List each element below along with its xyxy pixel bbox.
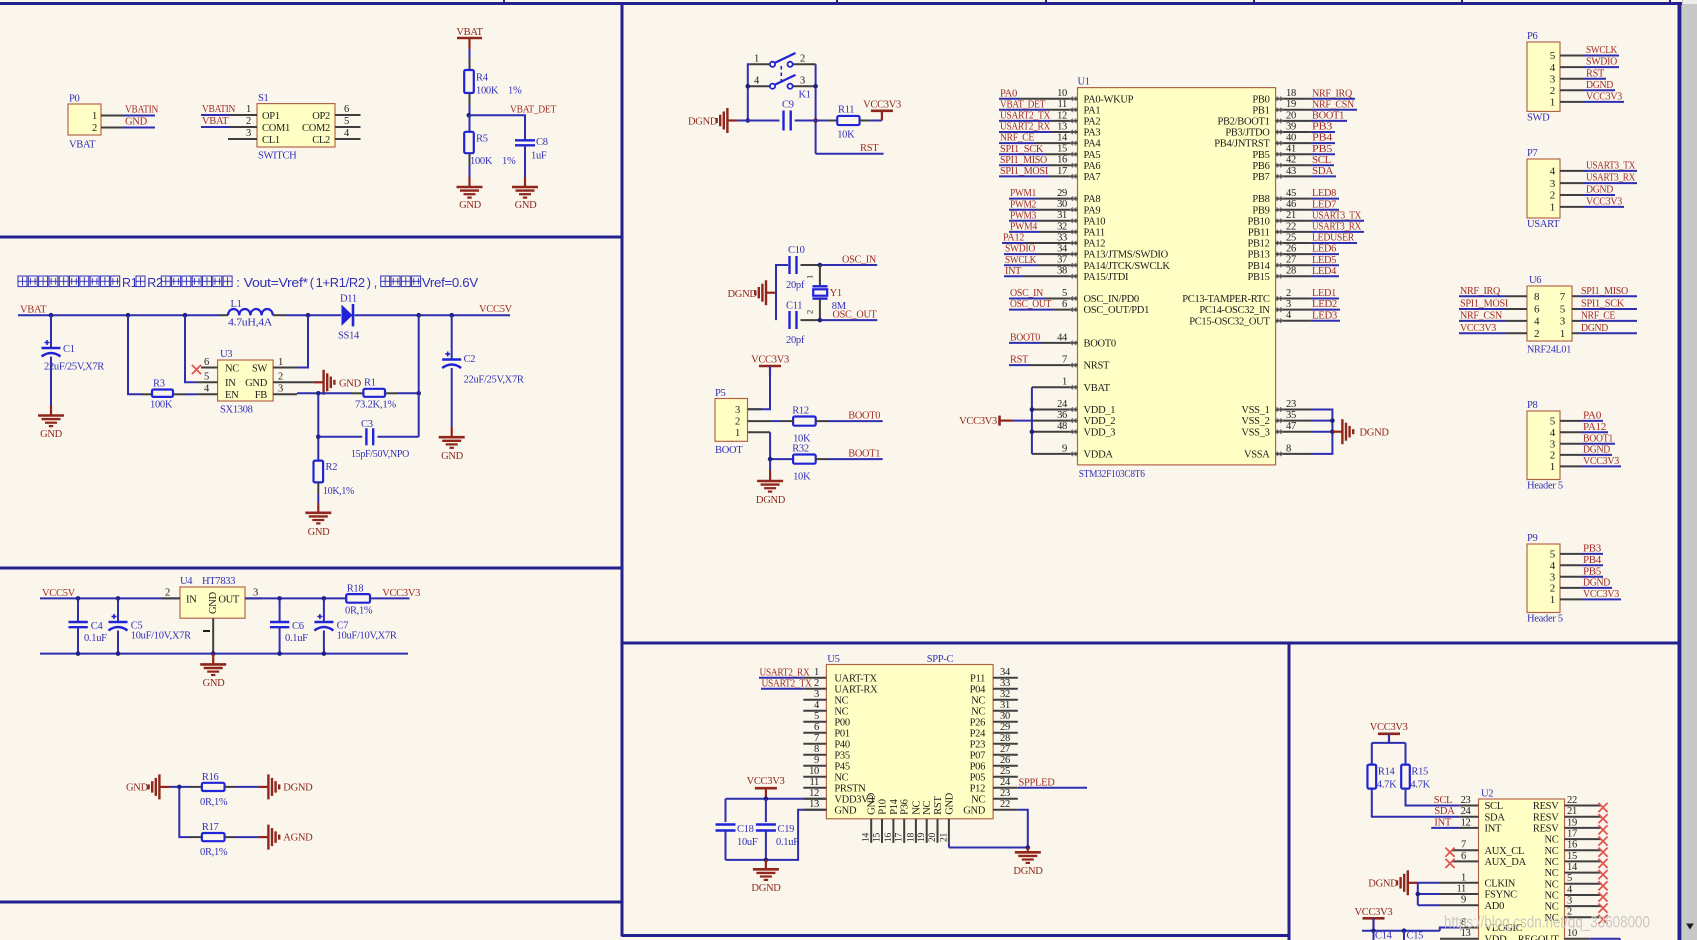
svg-text:35: 35: [1286, 410, 1296, 421]
svg-text:4: 4: [1550, 560, 1556, 572]
svg-text:DGND: DGND: [283, 783, 313, 794]
pin U2.10 REGOUT: [1565, 928, 1590, 939]
pin U1.19 PB1: [1252, 99, 1310, 116]
power VCC3V3: [863, 100, 901, 121]
svg-text:PC15-OSC32_OUT: PC15-OSC32_OUT: [1189, 316, 1270, 327]
svg-text:14: 14: [1057, 133, 1068, 144]
resistor R5: [464, 132, 516, 167]
wire ground rail: [40, 653, 408, 655]
power VCC3V3: [751, 355, 789, 376]
svg-text:20: 20: [1286, 110, 1296, 121]
svg-text:NRF_CSN: NRF_CSN: [1312, 99, 1355, 110]
pin U1.18 PB0: [1252, 88, 1310, 105]
wire: [317, 494, 319, 503]
svg-text:30: 30: [1000, 711, 1010, 722]
svg-text:INT: INT: [1005, 266, 1022, 277]
wire: [748, 366, 771, 409]
wire net BOOT0: [1009, 333, 1042, 344]
svg-text:4.7K: 4.7K: [1410, 780, 1430, 791]
wire: [179, 787, 190, 837]
svg-text:C14: C14: [1375, 931, 1393, 940]
pin R1.1: [352, 392, 363, 394]
pin U5.13: [803, 799, 826, 810]
svg-text:5: 5: [344, 116, 349, 127]
svg-text:13: 13: [1057, 121, 1067, 132]
pin U1.41 PB5: [1252, 144, 1310, 161]
IC U3 SX1308: [218, 349, 274, 416]
svg-text:C3: C3: [361, 419, 373, 430]
junction: [416, 313, 421, 318]
svg-text:DGND: DGND: [751, 883, 781, 894]
svg-text:21: 21: [939, 833, 949, 842]
svg-text:2: 2: [814, 678, 819, 689]
svg-text:VCC3V3: VCC3V3: [1354, 907, 1392, 918]
pin U5.11: [803, 777, 826, 788]
junction: [76, 596, 81, 601]
resistor R11: [837, 105, 859, 141]
svg-text:INT: INT: [1485, 824, 1502, 835]
svg-text:VCC3V3: VCC3V3: [863, 100, 901, 111]
svg-text:K1: K1: [799, 90, 811, 101]
svg-text:PA11: PA11: [1084, 228, 1105, 239]
pin U2.11 FSYNC: [1440, 884, 1479, 895]
svg-text:39: 39: [1286, 121, 1296, 132]
junction: [316, 435, 321, 440]
svg-text:PB4/JNTRST: PB4/JNTRST: [1214, 139, 1270, 150]
svg-text:7: 7: [814, 733, 819, 744]
svg-text:1: 1: [1062, 377, 1067, 388]
svg-text:IN: IN: [186, 595, 197, 606]
wire: [235, 836, 258, 838]
pin U3.3 FB: [273, 384, 297, 395]
svg-text:NC: NC: [1545, 879, 1559, 890]
pin U5.25: [993, 766, 1018, 777]
svg-text:FB: FB: [255, 390, 268, 401]
svg-text:1%: 1%: [508, 86, 522, 97]
svg-text:UART-TX: UART-TX: [834, 673, 877, 684]
svg-text:P23: P23: [970, 739, 985, 750]
pin U1.47 VSS_3: [1241, 421, 1311, 438]
svg-text:GND: GND: [944, 792, 955, 815]
svg-text:0.1uF: 0.1uF: [776, 837, 799, 848]
IC U4 HT7833: [180, 576, 245, 618]
wire net SDA: [1372, 789, 1460, 818]
svg-text:LED5: LED5: [1312, 255, 1336, 266]
wire net LED2: [1311, 299, 1340, 310]
ground GND bar symbol: [126, 774, 169, 799]
wire: [1013, 420, 1032, 422]
junction: [49, 313, 54, 318]
svg-text:PB1: PB1: [1252, 105, 1269, 116]
wire net VCC3V3: [1459, 323, 1505, 334]
wire net PA0: [1581, 411, 1603, 422]
wire net INT: [1004, 266, 1023, 277]
svg-text:SCL: SCL: [1312, 155, 1331, 166]
svg-text:15: 15: [1567, 851, 1577, 862]
svg-text:SWCLK: SWCLK: [1005, 255, 1037, 266]
svg-text:2: 2: [1550, 190, 1555, 202]
svg-text:D11: D11: [340, 294, 357, 305]
svg-text:5: 5: [1567, 873, 1572, 884]
wire: [770, 432, 793, 459]
svg-text:6: 6: [1461, 851, 1466, 862]
svg-text:GND: GND: [867, 792, 878, 815]
svg-text:U3: U3: [220, 349, 232, 360]
pin U1.21 PB10: [1247, 210, 1310, 227]
junction: [183, 313, 188, 318]
junction: [177, 785, 182, 790]
pin U1.45 PB8: [1252, 188, 1310, 205]
junction: [449, 313, 454, 318]
svg-text:4: 4: [814, 700, 820, 711]
svg-text:PA12: PA12: [1003, 233, 1024, 244]
svg-text:PB12: PB12: [1247, 239, 1269, 250]
wire net GND: [124, 117, 155, 128]
pin U1.6 OSC_OUT/PD1: [1053, 299, 1149, 316]
wire net SPI1_MISO: [999, 155, 1049, 166]
svg-text:19: 19: [1286, 99, 1296, 110]
svg-text:3: 3: [1550, 73, 1556, 85]
svg-text:LED7: LED7: [1312, 199, 1336, 210]
pin R5.2: [469, 153, 471, 165]
pin U5.7: [803, 733, 826, 744]
pin U5.24: [993, 777, 1018, 788]
connector P9: [1527, 533, 1563, 625]
wire net USART2_RX: [759, 667, 810, 678]
svg-text:NRF_IRQ: NRF_IRQ: [1312, 88, 1353, 99]
pin U1.7 NRST: [1030, 355, 1110, 372]
wire net USART3_RX: [1311, 222, 1364, 233]
pin P5.1: [748, 431, 771, 433]
svg-text:COM1: COM1: [262, 123, 290, 134]
svg-text:PB8: PB8: [1252, 194, 1269, 205]
svg-text:20pf: 20pf: [786, 335, 805, 346]
wire net PA0: [999, 88, 1019, 99]
capacitor C5: [109, 598, 192, 653]
svg-text:100K: 100K: [470, 156, 493, 167]
wire: [1372, 734, 1406, 765]
pin U2.2 NC: [1565, 907, 1602, 918]
svg-text:PA0: PA0: [1000, 88, 1017, 99]
sheet border left-column bottom y=902: [0, 901, 622, 904]
svg-text:47: 47: [1286, 421, 1296, 432]
connector P5: [715, 388, 748, 456]
ground DGND: [756, 470, 786, 506]
svg-text:NC: NC: [922, 801, 933, 815]
svg-text:PWM4: PWM4: [1010, 222, 1038, 233]
svg-text:VCC3V3: VCC3V3: [1586, 197, 1622, 208]
svg-text:4: 4: [1550, 62, 1556, 74]
svg-text:GND: GND: [245, 378, 268, 389]
svg-text:SW: SW: [252, 364, 268, 375]
pin U6 right 2: [1572, 320, 1580, 322]
resistor R1: [355, 378, 397, 411]
svg-text:10K: 10K: [793, 472, 811, 483]
svg-text:32: 32: [1057, 221, 1067, 232]
svg-text:PC14-OSC32_IN: PC14-OSC32_IN: [1199, 305, 1270, 316]
svg-text:NC: NC: [225, 364, 239, 375]
svg-text:PB6: PB6: [1252, 161, 1269, 172]
svg-text:3: 3: [246, 128, 251, 139]
no-connect X: [1598, 892, 1607, 901]
svg-text:10: 10: [809, 766, 819, 777]
svg-text:45: 45: [1286, 188, 1296, 199]
svg-text:NC: NC: [1545, 902, 1559, 913]
pin U5.6: [803, 722, 826, 733]
connector P6: [1527, 31, 1560, 123]
wire net SPI1_SCK: [1580, 299, 1637, 310]
svg-text:3: 3: [278, 384, 283, 395]
svg-text:PB3/JTDO: PB3/JTDO: [1225, 128, 1270, 139]
svg-text:VSS_1: VSS_1: [1241, 405, 1269, 416]
svg-text:0R,1%: 0R,1%: [200, 797, 228, 808]
resistor R18: [345, 584, 373, 617]
sheet border vertical x=1289: [1288, 643, 1291, 940]
svg-text:PA15/JTDI: PA15/JTDI: [1084, 272, 1130, 283]
svg-text:PA14/JTCK/SWCLK: PA14/JTCK/SWCLK: [1084, 261, 1171, 272]
wire net VBAT_DET: [999, 99, 1047, 110]
svg-text:4: 4: [1286, 310, 1292, 321]
wire: [469, 105, 471, 131]
svg-text:16: 16: [1057, 155, 1067, 166]
pin U1.2 PC13-TAMPER-RTC: [1182, 288, 1310, 305]
svg-text:1: 1: [1550, 202, 1555, 214]
wire: [815, 64, 817, 153]
svg-text:20: 20: [928, 833, 938, 842]
svg-text:PWM2: PWM2: [1010, 199, 1036, 210]
capacitor C2: [442, 315, 524, 427]
svg-text:34: 34: [1057, 244, 1068, 255]
svg-text:NRST: NRST: [1084, 361, 1111, 372]
svg-text:PA1: PA1: [1084, 105, 1101, 116]
svg-text:USART2_TX: USART2_TX: [1000, 111, 1051, 122]
svg-text:17: 17: [1057, 166, 1067, 177]
wire net NRF_CE: [1580, 311, 1637, 322]
no-connect X: [1598, 825, 1607, 834]
pin P6.3: [1560, 78, 1584, 80]
svg-text:19: 19: [917, 833, 927, 842]
svg-text:18: 18: [1286, 88, 1296, 99]
svg-text:GND: GND: [834, 805, 857, 816]
pin U5.8: [803, 744, 826, 755]
svg-text:BOOT1: BOOT1: [1312, 111, 1344, 122]
svg-text:5: 5: [204, 372, 209, 383]
wire net PWM2: [1009, 199, 1038, 210]
svg-text:4.7K: 4.7K: [1377, 780, 1397, 791]
svg-text:9: 9: [814, 755, 819, 766]
svg-text:AUX_CL: AUX_CL: [1485, 846, 1525, 857]
svg-text:C8: C8: [536, 137, 548, 148]
junction: [1371, 928, 1406, 933]
ground GND: [439, 427, 465, 462]
junction: [764, 797, 769, 802]
IC U5 SPP-C: [826, 654, 993, 819]
wire net SWDIO: [1584, 57, 1619, 68]
wire: [128, 315, 141, 394]
junction: [813, 84, 818, 123]
wire net NRF_CE: [999, 133, 1036, 144]
pin U5.12: [803, 788, 826, 799]
svg-text:SX1308: SX1308: [220, 405, 253, 416]
pin R12 wires net BOOT0: [780, 410, 882, 421]
sheet border middle divider y=643: [622, 642, 1680, 645]
svg-text:RST: RST: [1010, 355, 1029, 366]
svg-text:8: 8: [814, 744, 819, 755]
wire: [377, 436, 418, 438]
svg-text:GND: GND: [126, 783, 149, 794]
svg-text:https://blog.csdn.net/qq_33608: https://blog.csdn.net/qq_33608000: [1444, 913, 1650, 932]
svg-text:10K,1%: 10K,1%: [323, 486, 355, 497]
capacitor C7: [314, 598, 396, 653]
svg-text:U1: U1: [1078, 77, 1090, 88]
capacitor C14: [1374, 931, 1393, 940]
svg-text:37: 37: [1057, 255, 1067, 266]
pin U1.25 PB12: [1247, 232, 1310, 249]
svg-text:P0: P0: [69, 94, 80, 105]
pin U1.14 PA4: [1036, 133, 1101, 150]
pin U1.34 PA13/JTMS/SWDIO: [1037, 244, 1169, 261]
svg-text:NC: NC: [911, 801, 922, 815]
power VCC3V3: [1354, 907, 1392, 928]
resistor R15: [1401, 765, 1430, 791]
svg-text:28: 28: [1286, 266, 1296, 277]
svg-text:2: 2: [800, 54, 805, 65]
ground DGND bar symbol: [728, 280, 777, 305]
svg-text:AUX_DA: AUX_DA: [1485, 857, 1527, 868]
svg-text:5: 5: [1560, 304, 1566, 316]
svg-text:L1: L1: [231, 299, 242, 310]
pin R4.2: [469, 93, 471, 105]
junction: [467, 113, 472, 118]
svg-text:R2: R2: [326, 462, 338, 473]
pin R3.1: [141, 393, 152, 395]
svg-text:3: 3: [800, 76, 805, 87]
resistor R17: [200, 822, 228, 858]
pin P8.1: [1560, 465, 1581, 467]
svg-text:C11: C11: [786, 301, 802, 312]
svg-text:33: 33: [1000, 678, 1010, 689]
pin U2.1 CLKIN: [1440, 872, 1479, 883]
wire: [235, 786, 258, 788]
svg-text:P8: P8: [1527, 400, 1538, 411]
svg-text:PWM1: PWM1: [1010, 188, 1036, 199]
svg-text:48: 48: [1057, 421, 1067, 432]
sheet border middle bottom y=935.5: [622, 934, 1290, 937]
svg-text:VCC3V3: VCC3V3: [1460, 323, 1496, 334]
ground GND: [512, 177, 538, 211]
svg-text:2: 2: [278, 372, 283, 383]
pin R16.2: [225, 786, 235, 788]
pin U1.33 PA12: [1026, 232, 1105, 249]
wire net NRF_CSN: [1311, 99, 1357, 110]
svg-text:1: 1: [246, 104, 251, 115]
svg-text:PB15: PB15: [1247, 272, 1269, 283]
svg-text:P11: P11: [970, 673, 985, 684]
wire: [185, 393, 197, 395]
pin R11.2: [860, 120, 870, 122]
power VCC3V3: [1370, 722, 1408, 744]
svg-text:38: 38: [1057, 266, 1067, 277]
wire net NRF_CSN: [1459, 311, 1505, 322]
pin R3.2: [173, 393, 185, 395]
pin U3.6 NC: [201, 357, 218, 368]
svg-text:PB13: PB13: [1247, 250, 1269, 261]
svg-text:PA12: PA12: [1583, 422, 1606, 433]
wire net PB5: [1581, 566, 1603, 577]
svg-text:16: 16: [884, 833, 894, 842]
wire net DGND: [1584, 80, 1615, 91]
wire net RST: [1584, 68, 1606, 79]
svg-text:22uF/25V,X7R: 22uF/25V,X7R: [44, 362, 104, 373]
wire net LED7: [1311, 199, 1339, 210]
svg-text:LED1: LED1: [1312, 288, 1336, 299]
svg-text:USART2_TX: USART2_TX: [762, 678, 813, 689]
svg-text:UART-RX: UART-RX: [834, 684, 878, 695]
pin U1.20 PB2/BOOT1: [1217, 110, 1310, 127]
svg-text:OUT: OUT: [218, 595, 240, 606]
wire net SPPLED: [1018, 777, 1087, 788]
svg-text:27: 27: [1286, 255, 1296, 266]
pin U5.29: [993, 722, 1018, 733]
wire: [772, 420, 780, 422]
pin U5.23: [993, 788, 1018, 799]
svg-text:INT: INT: [1434, 817, 1451, 828]
wire net VBAT_DET: [469, 105, 557, 141]
capacitor C3: [351, 419, 410, 460]
wire net SWDIO: [1004, 244, 1037, 255]
svg-text:PA0: PA0: [1583, 411, 1601, 422]
svg-text:20pf: 20pf: [786, 280, 805, 291]
svg-text:PA6: PA6: [1084, 161, 1101, 172]
svg-text:CL1: CL1: [262, 135, 280, 146]
svg-text:Y1: Y1: [830, 288, 842, 299]
wire: [1362, 918, 1459, 930]
svg-text:P00: P00: [834, 717, 849, 728]
svg-text:PB3: PB3: [1312, 122, 1332, 133]
wire VSS bus: [1311, 410, 1332, 454]
no-connect X: [1598, 915, 1607, 924]
svg-text:4: 4: [1534, 316, 1540, 328]
svg-text:R18: R18: [347, 584, 364, 595]
wire: [169, 786, 190, 788]
svg-text:C6: C6: [292, 621, 304, 632]
svg-text:VBATIN: VBATIN: [202, 104, 236, 115]
svg-text:RST: RST: [933, 796, 944, 815]
wire net SPI1_MISO: [1580, 286, 1637, 297]
svg-text:OSC_IN: OSC_IN: [842, 254, 877, 265]
svg-text:1: 1: [735, 428, 740, 439]
pin U1.28 PB15: [1247, 266, 1310, 283]
svg-text:NC: NC: [1545, 891, 1559, 902]
svg-text:DGND: DGND: [1583, 578, 1611, 589]
svg-text:RESV: RESV: [1533, 824, 1559, 835]
svg-text:25: 25: [1000, 766, 1010, 777]
svg-text:SDA: SDA: [1312, 166, 1334, 177]
svg-text:6: 6: [344, 104, 349, 115]
svg-text:28: 28: [1000, 733, 1010, 744]
svg-text:1: 1: [805, 275, 815, 279]
svg-text:AD0: AD0: [1485, 901, 1505, 912]
svg-text:P26: P26: [970, 717, 985, 728]
svg-text:2: 2: [735, 417, 740, 428]
svg-text:P24: P24: [970, 728, 986, 739]
wire net BOOT1: [1311, 111, 1347, 122]
svg-text:3: 3: [1567, 896, 1572, 907]
svg-text:1uF: 1uF: [531, 151, 547, 162]
svg-text:OSC_OUT: OSC_OUT: [1010, 299, 1052, 310]
ground GND: [305, 503, 331, 538]
svg-text:R12: R12: [792, 406, 809, 417]
